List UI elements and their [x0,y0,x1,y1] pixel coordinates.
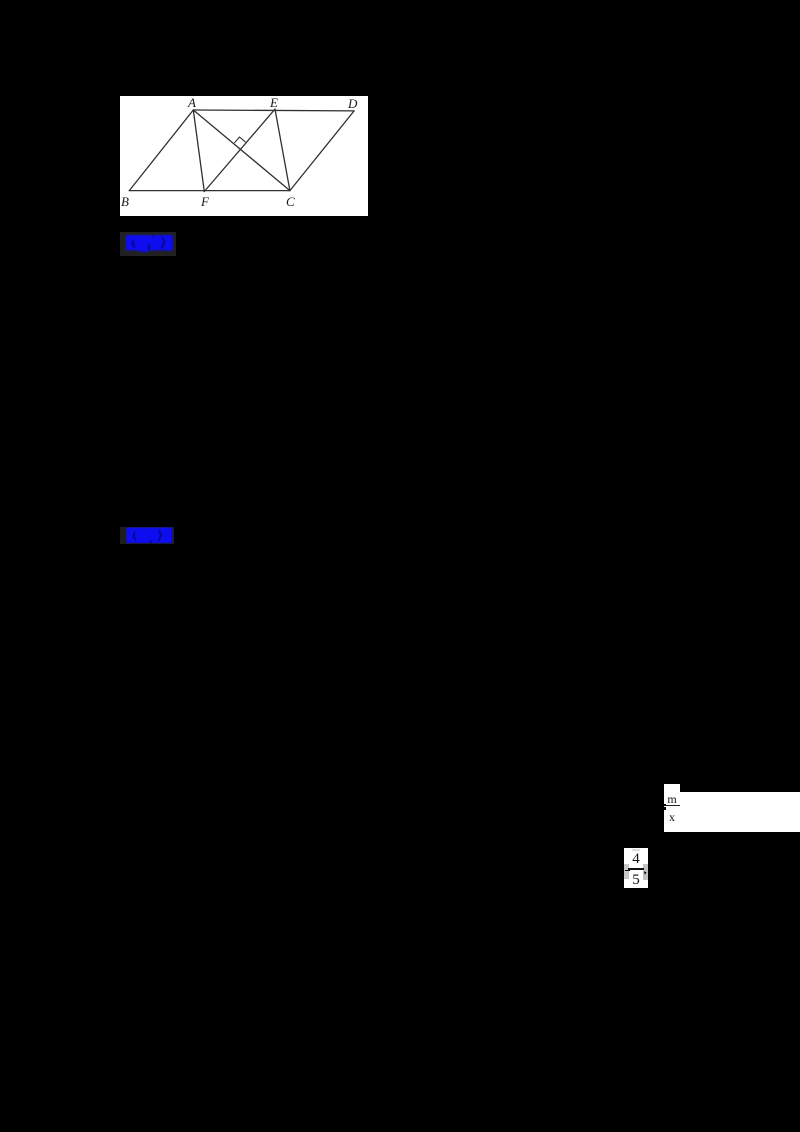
svg-text:C: C [286,194,295,209]
svg-text:F: F [200,194,210,209]
svg-text:E: E [269,96,278,110]
svg-text:D: D [347,96,358,111]
svg-text:A: A [187,96,196,110]
svg-text:B: B [121,194,129,209]
